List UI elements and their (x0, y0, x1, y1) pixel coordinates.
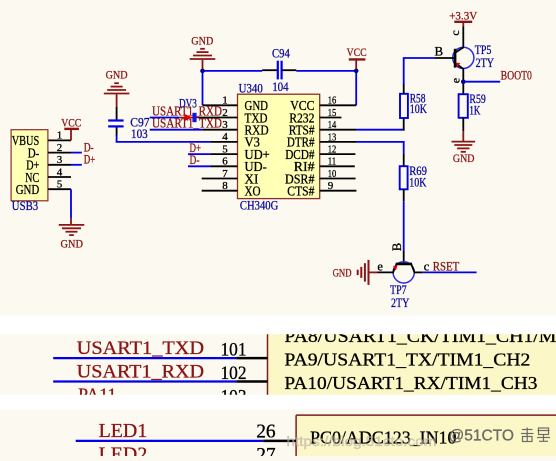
ground GND (top, above U340 pin 1 node) (190, 33, 216, 71)
wire U340 pin14 RTS# to R58 (356, 129, 405, 131)
net label USART1_TXD (pin 101) (77, 338, 247, 361)
wire U340 pin1 vertical from GND node (202, 71, 204, 105)
power VCC (top right of C94) (347, 45, 367, 71)
svg-text:D+: D+ (84, 153, 96, 167)
svg-text:GND: GND (106, 68, 128, 82)
svg-text:10K: 10K (409, 174, 427, 189)
svg-text:VCC: VCC (61, 115, 81, 129)
junction dot BOOT0 node (461, 79, 466, 84)
svg-text:26: 26 (256, 420, 275, 442)
U340 pin 7 stub (202, 168, 238, 180)
svg-text:+3.3V: +3.3V (449, 8, 477, 22)
svg-text:RSET: RSET (433, 260, 460, 274)
U340 pin 16 stub (320, 95, 357, 107)
net label D+ (U340 pin 5) (188, 141, 211, 155)
svg-text:10K: 10K (410, 101, 428, 116)
resistor R59 1K (459, 91, 486, 131)
svg-text:PA10/USART1_RX/TIM1_CH3: PA10/USART1_RX/TIM1_CH3 (284, 373, 537, 393)
svg-text:104: 104 (272, 79, 289, 94)
U340 pin 11 stub (320, 156, 355, 168)
wire R69 bottom to TP7 base (403, 189, 405, 251)
svg-text:DV3: DV3 (179, 97, 197, 111)
wire U340 pin16 vertical from VCC node (355, 71, 357, 105)
resistor R69 10K (400, 153, 427, 189)
U340 pin 13 stub (320, 131, 356, 143)
wire R58 top to TP5 base (403, 58, 435, 94)
wire and net label D+ (USB3 pin 3) (71, 153, 95, 167)
U340 pin 12 stub (320, 144, 356, 156)
svg-text:103: 103 (131, 126, 148, 141)
transistor TP5 2TY (434, 27, 494, 95)
USB3 pin 2 stub (48, 142, 71, 154)
wire C94 right lead to VCC node (296, 70, 357, 72)
svg-text:https://blog.51cto.com: https://blog.51cto.com (287, 433, 437, 449)
power VCC (at USB3 pin 1) (61, 115, 81, 140)
wire USART1_RXD to pin 102 (53, 380, 267, 382)
wire USART1_TXD to U340 pin 3 (150, 129, 203, 131)
svg-text:2TY: 2TY (391, 295, 410, 310)
svg-text:B: B (390, 243, 404, 251)
U340 pin 2 stub (198, 107, 238, 119)
svg-text:LED1: LED1 (99, 420, 148, 442)
wire USART1_RXD to DV3 anode (150, 117, 180, 119)
svg-text:D-: D- (190, 153, 200, 167)
MCU fragment 1 body (yellow box, cropped) (268, 320, 556, 402)
net label LED2 (pin 27, cropped) (99, 444, 276, 461)
connector USB3 (11, 130, 48, 214)
net label PA11 (pin 103, cropped) (78, 385, 246, 408)
svg-text:CTS#: CTS# (287, 184, 314, 199)
capacitor C97 value 103 (108, 107, 150, 142)
USB3 pin 4 stub (48, 166, 71, 178)
wire and net label D- (USB3 pin 2) (71, 140, 94, 154)
U340 pin 1 stub (203, 95, 238, 107)
power +3.3V (above TP5) (449, 8, 477, 27)
svg-text:XO: XO (245, 184, 261, 199)
U340 pin 8 stub (202, 180, 238, 192)
svg-text:USART1_TXD: USART1_TXD (77, 338, 204, 359)
wire USB3 pin 5 to ground (70, 189, 72, 218)
svg-text:BOOT0: BOOT0 (501, 68, 532, 82)
svg-text:e: e (449, 78, 463, 83)
svg-text:@51CTO: @51CTO (449, 428, 514, 445)
U340 pin 3 stub (203, 119, 238, 131)
transistor TP7 2TY (377, 243, 429, 310)
wire and net label RSET (423, 260, 477, 274)
net label LED1 (pin 26) (99, 420, 276, 442)
ground GND (below R59) (452, 131, 476, 165)
svg-text:c: c (424, 259, 430, 273)
resistor R58 10K (400, 91, 427, 131)
U340 pin 4 stub (211, 131, 238, 143)
USB3 pin 1 stub (48, 130, 71, 142)
svg-text:B: B (434, 44, 443, 59)
wire and net label BOOT0 (463, 68, 532, 82)
svg-text:PA9/USART1_TX/TIM1_CH2: PA9/USART1_TX/TIM1_CH2 (284, 350, 530, 370)
U340 pin 14 stub (320, 119, 356, 131)
junction dot at VCC node (354, 69, 359, 74)
wire GND node to C94 left lead (202, 70, 263, 72)
svg-text:1K: 1K (469, 103, 480, 118)
wire USART1_TXD to pin 101 (53, 357, 267, 359)
svg-text:GND: GND (60, 237, 83, 251)
watermark 51CTO blog (287, 428, 551, 450)
svg-text:GND: GND (16, 182, 40, 197)
U340 pin 9 stub (320, 180, 357, 192)
junction dot at GND node (200, 69, 205, 74)
svg-text:C94: C94 (272, 46, 290, 61)
capacitor C94 value 104 (262, 46, 296, 95)
U340 pin 10 stub (320, 168, 356, 180)
svg-text:2TY: 2TY (476, 55, 495, 70)
ground GND (left of TP7, power ground) (333, 260, 378, 285)
svg-text:c: c (448, 30, 462, 35)
svg-text:27: 27 (256, 444, 275, 456)
U340 pin 6 stub (211, 156, 238, 168)
net label USART1_RXD (pin 102) (77, 361, 247, 384)
svg-text:USB3: USB3 (12, 198, 38, 213)
diode DV3 (179, 97, 198, 123)
U340 pin 15 stub (320, 107, 342, 119)
svg-text:VCC: VCC (347, 45, 367, 59)
MCU fragment 2 body (yellow box, cropped) (296, 415, 556, 461)
wire C97 to U340 pin4 V3 (116, 141, 211, 143)
svg-text:GND: GND (333, 265, 352, 279)
U340 pin 5 stub (211, 143, 238, 155)
net label D- (U340 pin 6) (188, 153, 211, 167)
svg-text:LED2: LED2 (99, 444, 148, 457)
svg-text:GND: GND (191, 33, 213, 47)
wire U340 pin13 DTR# to R69 (356, 141, 404, 153)
svg-text:GND: GND (453, 151, 475, 165)
svg-text:e: e (377, 260, 383, 274)
USB3 pin 3 stub (48, 154, 71, 166)
svg-text:USART1_RXD: USART1_RXD (77, 361, 204, 382)
IC U340 CH340G body (238, 80, 320, 212)
ground GND (above C97) (104, 68, 130, 107)
svg-text:U340: U340 (239, 80, 263, 95)
svg-text:USART1_TXD: USART1_TXD (152, 116, 222, 131)
ground GND (below USB3) (59, 218, 85, 251)
svg-text:CH340G: CH340G (240, 198, 278, 213)
USB3 pin 5 stub (48, 179, 71, 191)
wire LED1 to pin 26 (76, 440, 296, 442)
